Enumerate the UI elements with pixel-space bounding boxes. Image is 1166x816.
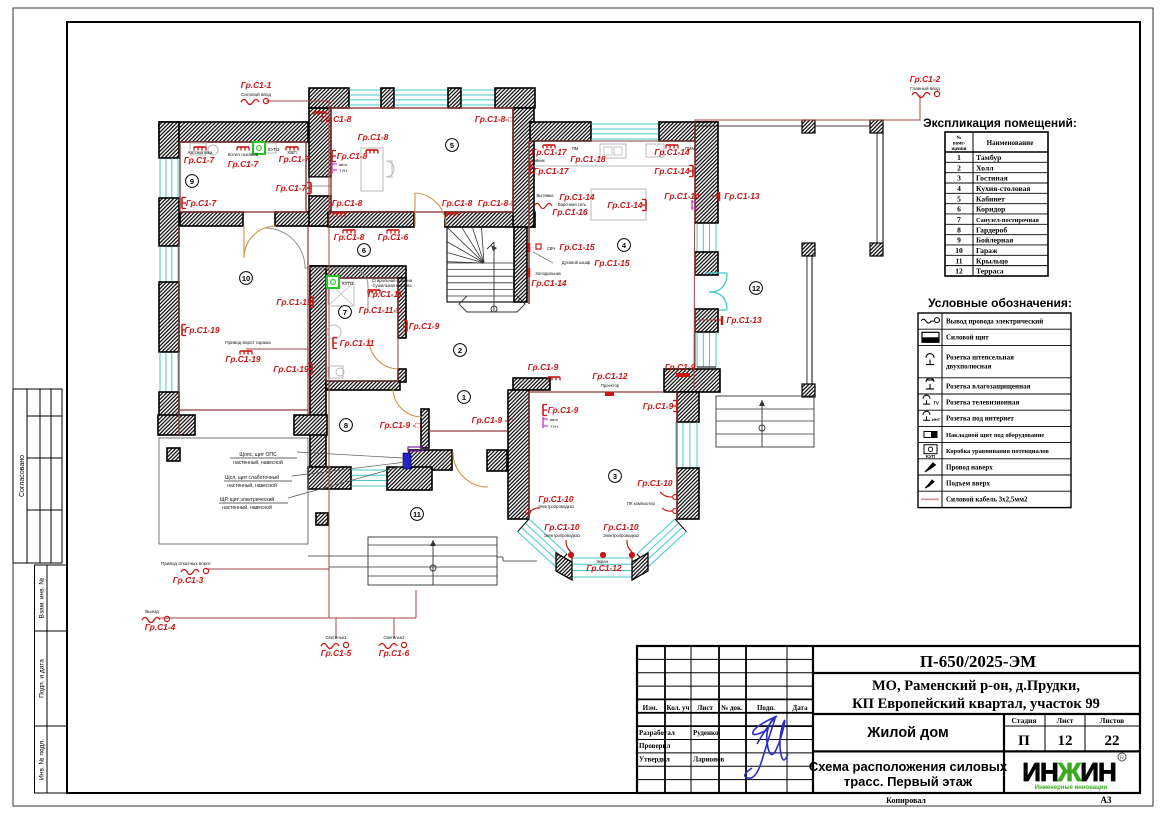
wall room3 east pier xyxy=(677,468,699,519)
comb corr b xyxy=(387,230,399,234)
underline1 xyxy=(230,457,297,459)
wall stairs east xyxy=(514,227,527,302)
sq pier driveway2 xyxy=(316,513,328,525)
svg-text:Щопс, щит ОПС: Щопс, щит ОПС xyxy=(239,452,277,458)
svg-text:Гр.С1-6: Гр.С1-6 xyxy=(379,648,410,658)
left stamp: Подп. и дата xyxy=(35,631,67,726)
panel leaders xyxy=(288,452,406,498)
comb 14a xyxy=(666,145,678,149)
window bottom xyxy=(351,470,387,486)
svg-text:№ док.: № док. xyxy=(720,704,743,712)
svg-text:Гр.С1-10: Гр.С1-10 xyxy=(544,522,580,532)
svg-text:22: 22 xyxy=(1105,733,1120,749)
room number 10 xyxy=(240,272,253,285)
svg-text:5: 5 xyxy=(957,194,961,203)
wall room8 east xyxy=(421,409,429,448)
wall room5 west lower xyxy=(309,196,331,226)
cable y569 xyxy=(206,568,329,570)
svg-text:Кол. уч: Кол. уч xyxy=(666,704,689,712)
svg-text:5: 5 xyxy=(450,141,454,150)
svg-text:Котел газовый: Котел газовый xyxy=(228,151,259,157)
svg-text:12: 12 xyxy=(1058,733,1073,749)
svg-text:Розетка штепсельная: Розетка штепсельная xyxy=(946,354,1014,362)
svg-text:Гр.С1-7: Гр.С1-7 xyxy=(279,154,310,164)
svg-text:ТУН: ТУН xyxy=(550,424,558,429)
room number 2 xyxy=(454,344,467,357)
window room5 w2 xyxy=(394,90,448,105)
cable 13b xyxy=(697,319,714,321)
svg-text:Терраса: Терраса xyxy=(976,267,1004,276)
cable porch stub xyxy=(415,590,417,618)
svg-text:Жилой дом: Жилой дом xyxy=(866,725,948,741)
svg-text:Холл: Холл xyxy=(976,163,994,172)
svg-text:Санузел-постирочная: Санузел-постирочная xyxy=(976,217,1039,224)
symbol Гр.С1-2 xyxy=(912,91,940,97)
svg-text:Вытяжка: Вытяжка xyxy=(536,193,554,198)
comb 11c xyxy=(333,338,337,349)
room5 inner outline xyxy=(331,108,513,212)
svg-text:Гардероб: Гардероб xyxy=(976,225,1007,234)
svg-text:Гараж: Гараж xyxy=(976,246,998,255)
svg-text:Кабинет: Кабинет xyxy=(976,194,1005,203)
mark Гр.С1-8 f xyxy=(446,213,458,217)
bracket 9bath xyxy=(403,321,407,332)
porch steps xyxy=(308,537,537,585)
room number 11 xyxy=(411,508,424,521)
svg-text:Гр.С1-10: Гр.С1-10 xyxy=(603,522,639,532)
svg-text:№: № xyxy=(956,135,961,141)
svg-text:Гр.С1-15: Гр.С1-15 xyxy=(559,242,595,252)
svg-text:Сушильная машина: Сушильная машина xyxy=(372,283,412,288)
room9 inner outline xyxy=(180,142,306,212)
wall room7 east a xyxy=(398,278,406,338)
window room5 w1 xyxy=(349,90,381,105)
window kitchen top xyxy=(591,124,659,139)
comb 19d xyxy=(308,364,312,375)
svg-text:Гостиная: Гостиная xyxy=(976,174,1008,183)
svg-text:Гр.С1-8: Гр.С1-8 xyxy=(358,132,389,142)
wall room5 west upper xyxy=(309,108,331,177)
svg-text:Гр.С1-8: Гр.С1-8 xyxy=(337,151,368,161)
svg-text:2: 2 xyxy=(957,163,961,172)
kitchen inner outline xyxy=(530,141,695,367)
comb 11a xyxy=(368,290,380,294)
svg-text:Гр.С1-3: Гр.С1-3 xyxy=(173,575,204,585)
KUP1 box room7 xyxy=(327,276,354,288)
svg-text:Крыльцо: Крыльцо xyxy=(976,256,1008,265)
wall bottom a xyxy=(308,467,351,489)
svg-text:Гр.С1-19: Гр.С1-19 xyxy=(273,364,309,374)
svg-text:Разработал: Разработал xyxy=(639,729,675,737)
cable C1-6 stub xyxy=(393,618,395,638)
kitchen sink xyxy=(600,144,626,158)
svg-text:Гр.С1-6: Гр.С1-6 xyxy=(378,232,409,242)
comb 17b xyxy=(530,162,534,173)
svg-text:Гр.С1-14: Гр.С1-14 xyxy=(654,147,690,157)
svg-text:Гр.С1-16: Гр.С1-16 xyxy=(552,207,588,217)
svg-text:Подъем вверх: Подъем вверх xyxy=(946,480,991,488)
svg-text:Листов: Листов xyxy=(1100,716,1124,725)
bracket r3a xyxy=(543,405,547,416)
window left w1 xyxy=(160,158,178,198)
bath shower xyxy=(328,282,354,306)
svg-text:Светильн1: Светильн1 xyxy=(326,635,348,640)
svg-text:Гр.С1-10: Гр.С1-10 xyxy=(538,494,574,504)
svg-text:Копировал: Копировал xyxy=(886,796,926,805)
svg-text:П-650/2025-ЭМ: П-650/2025-ЭМ xyxy=(920,652,1036,671)
svg-text:ТУН: ТУН xyxy=(339,168,347,173)
svg-text:7: 7 xyxy=(957,215,961,224)
room3 top red line xyxy=(529,391,664,393)
svg-text:двухполюсная: двухполюсная xyxy=(946,363,991,371)
svg-text:Электропроводка1: Электропроводка1 xyxy=(544,533,581,538)
mark proj xyxy=(605,392,614,396)
wall east seg1 xyxy=(695,122,718,223)
svg-text:Схема расположения силовых: Схема расположения силовых xyxy=(809,759,1008,774)
svg-text:Холодильник: Холодильник xyxy=(535,271,561,276)
mark 19c xyxy=(240,351,252,355)
wall kitchen top a xyxy=(530,122,591,141)
svg-text:КУП1: КУП1 xyxy=(342,281,354,286)
garage inner outline xyxy=(179,226,308,435)
kitchen stove xyxy=(646,144,664,157)
svg-text:Электропроводка2: Электропроводка2 xyxy=(603,533,640,538)
svg-text:Духовой шкаф: Духовой шкаф xyxy=(562,260,591,265)
bath toilet xyxy=(328,366,343,378)
svg-text:7: 7 xyxy=(343,308,347,317)
left stamp: Взам. инв. № xyxy=(35,565,67,631)
cable top to Гр.С1-1 xyxy=(266,100,329,102)
squig 10c xyxy=(566,540,571,552)
door terrace double xyxy=(705,273,727,310)
svg-text:ПМ: ПМ xyxy=(572,146,579,151)
bracket r3b xyxy=(673,401,677,412)
room number 4 xyxy=(618,239,631,252)
svg-text:Гр.С1-8-□: Гр.С1-8-□ xyxy=(475,114,513,124)
svg-text:Гр.С1-1: Гр.С1-1 xyxy=(241,80,272,90)
svg-text:настенный, навесной: настенный, навесной xyxy=(233,459,283,466)
wall room5 east xyxy=(513,108,534,227)
svg-text:МО, Раменский р-он, д.Прудки,: МО, Раменский р-он, д.Прудки, xyxy=(872,678,1080,694)
svg-text:чайник: чайник xyxy=(531,158,545,163)
svg-text:TV: TV xyxy=(933,401,940,406)
window east w2 xyxy=(697,332,716,367)
bay diag window w xyxy=(518,519,567,567)
svg-text:Коридор: Коридор xyxy=(976,205,1005,214)
comb Гр.С1-7 e xyxy=(182,198,186,209)
chair room5 xyxy=(386,161,394,177)
room number 3 xyxy=(609,470,622,483)
svg-text:авто: авто xyxy=(550,417,559,422)
svg-text:Условные обозначения:: Условные обозначения: xyxy=(928,296,1072,310)
bay pier w xyxy=(556,553,572,580)
svg-text:Утвердил: Утвердил xyxy=(639,756,670,764)
svg-text:Розетка под интернет: Розетка под интернет xyxy=(946,415,1014,423)
svg-text:Розетка влагозащищенная: Розетка влагозащищенная xyxy=(946,382,1031,390)
window room3 east xyxy=(676,422,697,468)
svg-text:Гр.С1-8: Гр.С1-8 xyxy=(332,198,363,208)
wall room5 top a xyxy=(309,88,349,108)
wall stairs top xyxy=(445,212,535,227)
wall room5 top pier1 xyxy=(381,88,394,108)
svg-text:Гр.С1-17: Гр.С1-17 xyxy=(531,147,567,157)
svg-text:Силовой кабель 3х2,5мм2: Силовой кабель 3х2,5мм2 xyxy=(946,496,1028,504)
symbol C1-6 xyxy=(379,642,407,648)
svg-text:Стадия: Стадия xyxy=(1011,716,1036,725)
cable trunk vertical xyxy=(328,101,330,618)
svg-text:авто: авто xyxy=(339,162,348,167)
cable y618 xyxy=(160,617,416,619)
svg-text:ИНЖИН: ИНЖИН xyxy=(1022,757,1116,787)
wall corridor south b xyxy=(275,212,413,226)
symbol C1-5 xyxy=(321,642,349,648)
wall room5 top corner xyxy=(495,88,535,108)
cable garage xyxy=(246,348,311,350)
room7 inner outline xyxy=(326,278,398,381)
svg-text:Электропроводка1: Электропроводка1 xyxy=(538,504,575,509)
svg-text:Гр.С1-19: Гр.С1-19 xyxy=(225,354,261,364)
comb 14d xyxy=(642,200,646,211)
svg-text:Гр.С1-14: Гр.С1-14 xyxy=(531,278,567,288)
wall room3 west xyxy=(508,390,529,519)
left stamp: Инв. № подл. xyxy=(35,726,67,793)
svg-text:10: 10 xyxy=(242,274,250,283)
svg-text:Вывод провода электрический: Вывод провода электрический xyxy=(946,318,1043,326)
svg-text:Гр.С1-4: Гр.С1-4 xyxy=(145,622,176,632)
wall east corner block xyxy=(664,369,720,392)
svg-text:8: 8 xyxy=(957,225,961,234)
mark Гр.С1-8 e xyxy=(333,213,345,217)
signature xyxy=(745,716,788,778)
bath sink xyxy=(327,325,341,339)
svg-text:ЩР, щит электрический: ЩР, щит электрический xyxy=(220,496,275,503)
room number 5 xyxy=(446,139,459,152)
comb Гр.С1-8 c xyxy=(366,150,378,154)
svg-text:Гр.С1-13: Гр.С1-13 xyxy=(726,315,762,325)
desk room5 xyxy=(361,148,383,191)
svg-text:КП Европейский квартал, участо: КП Европейский квартал, участок 99 xyxy=(852,696,1100,712)
svg-text:ИНТ: ИНТ xyxy=(932,417,941,422)
magenta r3a xyxy=(543,417,559,429)
svg-text:Привод ворот гаража: Привод ворот гаража xyxy=(225,340,271,345)
mark 13b xyxy=(714,316,722,325)
svg-text:Гр.С1-11-□: Гр.С1-11-□ xyxy=(359,305,401,315)
svg-text:Гр.С1-5: Гр.С1-5 xyxy=(321,648,352,658)
svg-text:Инженерные инновации: Инженерные инновации xyxy=(1035,785,1108,791)
wall tambour sw xyxy=(409,450,452,470)
svg-text:Ларионов: Ларионов xyxy=(693,756,725,764)
window left w2 xyxy=(160,246,178,282)
svg-text:6: 6 xyxy=(362,246,366,255)
svg-text:Светильн2: Светильн2 xyxy=(384,635,406,640)
svg-text:Гр.С1-19: Гр.С1-19 xyxy=(184,325,220,335)
door room5 xyxy=(415,193,446,226)
svg-text:Силовой щит: Силовой щит xyxy=(946,334,989,342)
svg-text:11: 11 xyxy=(955,256,962,265)
room number 9 xyxy=(186,175,199,188)
svg-text:Гр.С1-8-□: Гр.С1-8-□ xyxy=(478,198,516,208)
svg-text:9: 9 xyxy=(957,236,961,245)
svg-text:12: 12 xyxy=(752,284,760,293)
svg-text:10: 10 xyxy=(955,246,963,255)
left stamp: Согласовано xyxy=(13,389,62,563)
svg-text:Гр.С1-8: Гр.С1-8 xyxy=(321,114,352,124)
svg-text:Гр.С1-14: Гр.С1-14 xyxy=(559,192,595,202)
magenta 14e xyxy=(692,200,697,210)
svg-text:Розетка телевизионная: Розетка телевизионная xyxy=(946,399,1019,407)
wall kitchen top b xyxy=(659,122,716,141)
comb room9 b xyxy=(237,147,249,151)
svg-text:Щсл, щит слаботочный: Щсл, щит слаботочный xyxy=(225,474,279,481)
svg-text:Наименование: Наименование xyxy=(987,139,1034,147)
squig 10d xyxy=(627,540,632,552)
svg-text:R: R xyxy=(1120,756,1124,762)
svg-text:Гр.С1-9 -□: Гр.С1-9 -□ xyxy=(380,420,421,430)
svg-text:Гр.С1-7: Гр.С1-7 xyxy=(228,159,259,169)
stairs xyxy=(409,188,525,312)
comb Гр.С1-8 d xyxy=(332,151,336,162)
comb corr a xyxy=(343,230,355,234)
svg-text:Лист: Лист xyxy=(697,704,713,712)
svg-text:Гр.С1-8: Гр.С1-8 xyxy=(334,232,365,242)
svg-text:Гр.С1-12: Гр.С1-12 xyxy=(586,563,622,573)
bay diag window e xyxy=(637,519,686,567)
svg-text:Проверил: Проверил xyxy=(639,742,670,750)
mark r2b xyxy=(676,373,690,377)
bay bottom window xyxy=(572,558,632,577)
svg-text:Инв. № подл.: Инв. № подл. xyxy=(39,739,46,780)
svg-text:настенный, навесной: настенный, навесной xyxy=(222,504,272,511)
wall room5 top pier2 xyxy=(448,88,461,108)
svg-text:Гр.С1-10: Гр.С1-10 xyxy=(637,478,673,488)
comb Гр.С1-7 d xyxy=(307,183,311,194)
svg-text:9: 9 xyxy=(190,177,194,186)
svg-text:Коробка уравнивания потенциало: Коробка уравнивания потенциалов xyxy=(946,448,1049,455)
svg-text:Подп. и дата: Подп. и дата xyxy=(39,659,46,698)
kitchen island xyxy=(591,189,646,220)
svg-text:Гр.С1-9: Гр.С1-9 xyxy=(409,321,440,331)
svg-text:настенный, навесной: настенный, навесной xyxy=(227,482,277,489)
svg-text:Гр.С1-13: Гр.С1-13 xyxy=(724,191,760,201)
KUP2 box room9 xyxy=(253,142,280,154)
title block right cells xyxy=(809,652,1140,793)
wall garage bottom w xyxy=(158,415,195,435)
door tambour xyxy=(393,389,422,417)
svg-text:Накладной щит под оборудование: Накладной щит под оборудование xyxy=(946,432,1044,439)
svg-text:Бойлерная: Бойлерная xyxy=(976,236,1013,245)
wall room9 bottom a xyxy=(180,212,243,226)
svg-text:Гр.С1-12: Гр.С1-12 xyxy=(592,371,628,381)
svg-text:Гр.С1-17: Гр.С1-17 xyxy=(533,166,569,176)
bay pier e xyxy=(632,553,648,580)
svg-text:Привод откатных ворот: Привод откатных ворот xyxy=(161,561,212,566)
room schedule table xyxy=(923,116,1077,276)
svg-text:Проектор: Проектор xyxy=(601,383,620,388)
svg-text:Лист: Лист xyxy=(1057,716,1074,725)
svg-text:2: 2 xyxy=(458,346,462,355)
svg-text:Кухня-столовая: Кухня-столовая xyxy=(976,184,1031,193)
window left w3 xyxy=(160,352,178,392)
room number 8 xyxy=(340,419,353,432)
marks C15 xyxy=(529,243,555,252)
svg-text:Гр.С1-14: Гр.С1-14 xyxy=(607,200,643,210)
svg-text:Гр.С1-7: Гр.С1-7 xyxy=(186,198,217,208)
sq pier driveway xyxy=(167,448,180,461)
driveway outline xyxy=(159,438,308,544)
opening room9-room5 xyxy=(309,177,331,196)
door front xyxy=(453,452,488,487)
svg-text:Гр.С1-19: Гр.С1-19 xyxy=(276,297,312,307)
cable C1-5 stub xyxy=(335,618,337,638)
svg-text:Взам. инв. №: Взам. инв. № xyxy=(39,578,46,619)
boiler equip room9 xyxy=(190,143,206,155)
door garage xyxy=(244,226,276,258)
wall left seg3 xyxy=(159,282,179,352)
svg-text:поме-: поме- xyxy=(953,142,966,147)
svg-text:Руденко: Руденко xyxy=(693,729,719,737)
svg-text:Согласовано: Согласовано xyxy=(19,455,26,497)
underline3 xyxy=(219,502,288,504)
svg-text:КУП2: КУП2 xyxy=(268,147,280,152)
room3 inner outline xyxy=(529,390,677,519)
svg-text:Экспликация помещений:: Экспликация помещений: xyxy=(923,116,1077,130)
leader духовой xyxy=(533,252,553,263)
svg-text:Гр.С1-2: Гр.С1-2 xyxy=(910,74,941,84)
svg-text:Гр.С1-9: Гр.С1-9 xyxy=(528,362,559,372)
panel purple xyxy=(408,447,422,451)
wall left seg4 xyxy=(159,392,179,434)
svg-text:Главный ввод: Главный ввод xyxy=(910,85,940,91)
mark 13a xyxy=(712,192,719,201)
svg-text:Подп.: Подп. xyxy=(757,704,775,712)
comb room5 nw xyxy=(314,112,326,116)
wall room9 top xyxy=(159,122,308,142)
svg-text:Гр.С1-7: Гр.С1-7 xyxy=(184,155,215,165)
wall east seg3 xyxy=(695,309,718,332)
wall garage bottom e xyxy=(294,415,327,435)
svg-text:11: 11 xyxy=(413,510,421,519)
svg-text:1: 1 xyxy=(462,393,466,402)
svg-text:Тамбур: Тамбур xyxy=(976,153,1001,162)
wall room7 south xyxy=(326,381,400,390)
underline2 xyxy=(224,480,292,482)
door room7 xyxy=(369,338,398,369)
panel blue xyxy=(403,453,411,469)
wall east below corner xyxy=(677,392,699,422)
comb 17a xyxy=(543,145,555,149)
floor edge curve xyxy=(265,228,368,312)
svg-text:8: 8 xyxy=(344,421,348,430)
symbol C1-3 xyxy=(181,568,209,574)
wall room5 south a xyxy=(328,212,414,227)
wall room7 top xyxy=(311,266,406,278)
svg-text:Гр.С1-9 -□: Гр.С1-9 -□ xyxy=(472,415,513,425)
svg-text:Гр.С1-9: Гр.С1-9 xyxy=(665,362,696,372)
svg-text:Гр.С1-8: Гр.С1-8 xyxy=(442,198,473,208)
svg-text:Гр.С1-14: Гр.С1-14 xyxy=(664,191,700,201)
svg-text:Гр.С1-9: Гр.С1-9 xyxy=(548,405,579,415)
mark r2a xyxy=(548,377,560,381)
mark fridge xyxy=(528,268,531,277)
wall central vert xyxy=(310,266,326,467)
svg-text:4: 4 xyxy=(957,184,961,193)
symbol C1-4 xyxy=(142,616,170,622)
svg-text:1: 1 xyxy=(957,153,961,162)
svg-text:П: П xyxy=(1018,733,1030,749)
kitchen west wall line xyxy=(528,141,530,304)
svg-text:3: 3 xyxy=(957,174,961,183)
svg-text:3: 3 xyxy=(613,472,617,481)
